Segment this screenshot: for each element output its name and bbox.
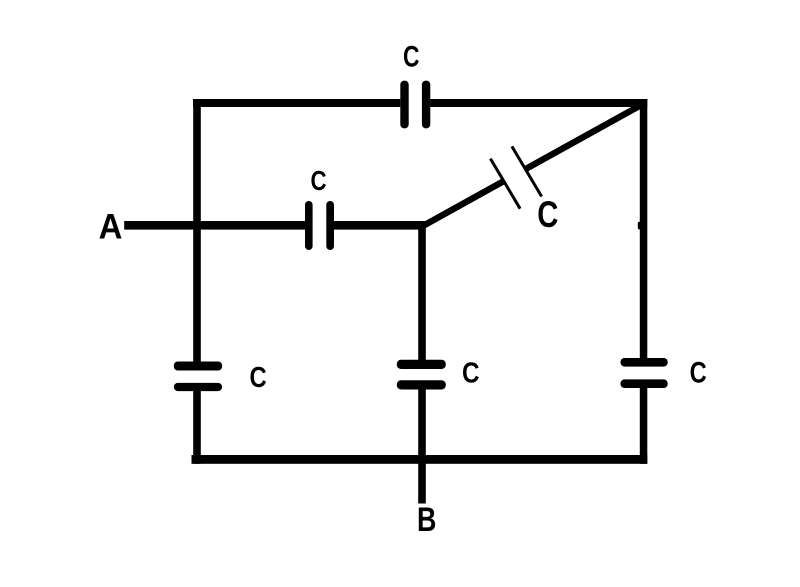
wire: middle branch, lower segment (C4 bottom plate through bottom wire to B stub) (418, 389, 426, 504)
capacitor C5 (right branch) (621, 358, 668, 388)
capacitor C4 (middle branch) (397, 360, 446, 390)
wire: top side, right segment (C1 right plate to top-right corner) (430, 99, 647, 107)
svg-text:C: C (403, 40, 419, 74)
wire: left side, lower segment (C2 bottom plate to bottom-left corner) (193, 391, 201, 464)
svg-text:C: C (250, 361, 267, 394)
wire: diagonal, lower segment (middle node to C6 left plate) (421, 181, 505, 228)
capacitor C2 (left branch) (174, 362, 222, 392)
svg-text:C: C (462, 356, 479, 388)
svg-text:C: C (537, 195, 558, 236)
svg-text:C: C (311, 166, 327, 197)
svg-text:B: B (417, 501, 436, 539)
wire: node A lead, left segment (A terminal to C3 left plate) (124, 221, 305, 230)
junction tick on right wire at node-A level (638, 222, 642, 230)
wire: bottom side (bottom-left corner to bottom-right corner) (192, 455, 648, 464)
wire: right side, lower segment (C5 bottom plate to bottom-right corner) (640, 388, 648, 464)
capacitor C6 (diagonal branch, thin plates) (490, 146, 541, 208)
capacitor C1 (top, series in top wire) (400, 81, 430, 129)
capacitor C3 (series in node-A lead) (305, 201, 334, 250)
wire: node A lead, right segment (C3 right plate to middle node) (334, 221, 426, 230)
wire: diagonal, upper segment (C6 right plate to top-right corner) (526, 103, 646, 169)
wire: top side, left segment (top-left corner to C1 left plate) (193, 99, 400, 107)
svg-text:A: A (99, 208, 123, 247)
wire: middle branch, upper segment (middle node to C4 top plate) (418, 221, 426, 360)
wire: left side, upper segment (top-left corner to C2 top plate) (193, 99, 201, 362)
svg-text:C: C (690, 356, 707, 389)
wire: right side, upper segment (top-right corner to C5 top plate) (640, 99, 648, 358)
